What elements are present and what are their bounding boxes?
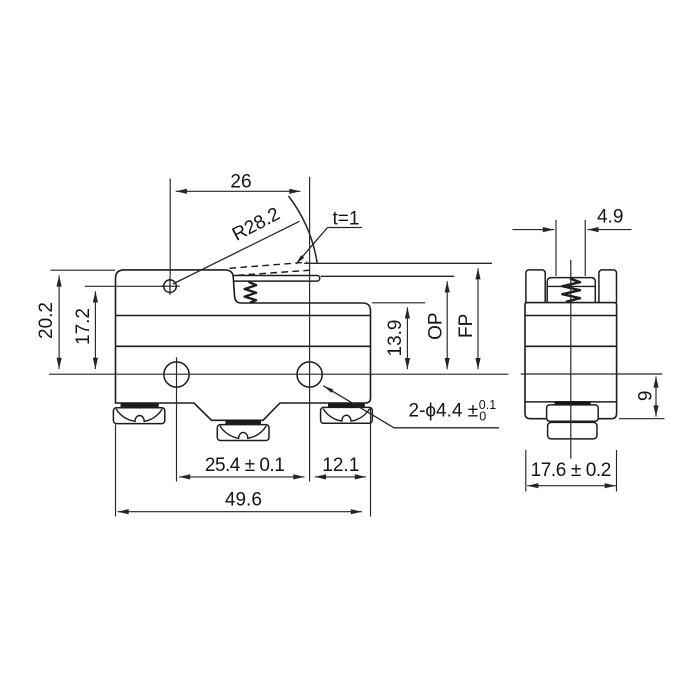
svg-text:26: 26 [230, 172, 251, 193]
svg-text:49.6: 49.6 [225, 489, 262, 510]
svg-text:t=1: t=1 [333, 208, 360, 229]
svg-text:25.4 ± 0.1: 25.4 ± 0.1 [205, 455, 284, 476]
svg-text:9: 9 [636, 391, 657, 402]
svg-text:13.9: 13.9 [385, 320, 406, 357]
svg-text:OP: OP [426, 312, 447, 339]
svg-text:2-ϕ4.4 ±: 2-ϕ4.4 ± [409, 400, 479, 421]
svg-text:12.1: 12.1 [322, 455, 359, 476]
svg-text:4.9: 4.9 [597, 207, 623, 228]
svg-text:20.2: 20.2 [36, 302, 57, 339]
svg-text:17.6 ± 0.2: 17.6 ± 0.2 [531, 460, 611, 481]
svg-text:FP: FP [456, 314, 477, 338]
svg-text:0: 0 [479, 409, 486, 423]
svg-text:17.2: 17.2 [73, 308, 94, 345]
